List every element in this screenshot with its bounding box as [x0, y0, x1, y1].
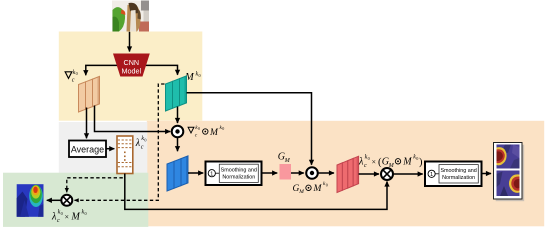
svg-text:): ) — [419, 157, 423, 168]
wire: smoothing box 2 to output — [482, 173, 492, 175]
label: lambda_c^k0 x M^k0 — [51, 210, 87, 225]
svg-text:Smoothing and: Smoothing and — [440, 168, 476, 174]
svg-text:1: 1 — [430, 172, 433, 178]
wire: CNN model branch line (left) — [86, 65, 130, 75]
background: yellow group box (CNN stage) — [59, 32, 203, 121]
svg-text:M: M — [298, 189, 304, 195]
svg-text:Average: Average — [71, 145, 104, 155]
label: G_M odot M^k0 — [293, 181, 328, 195]
svg-text:0: 0 — [76, 71, 78, 76]
feature maps: activations (teal stack) — [166, 76, 187, 111]
wire: odot2 to masked maps (red) — [318, 172, 334, 174]
wire: otimes1 to heatmap result — [47, 199, 62, 201]
svg-text:0: 0 — [198, 126, 200, 131]
operator: odot2 — [306, 167, 318, 179]
operator: otimes1 — [61, 195, 72, 206]
operator: odot1 (element-wise product) — [172, 126, 184, 138]
wire: gradients to odot1 — [95, 106, 171, 132]
box: Average — [69, 141, 106, 158]
svg-text:M: M — [284, 158, 291, 164]
background: orange group box (right stage) — [147, 121, 544, 227]
wire: odot1 down to weighted maps (blue) — [177, 138, 179, 152]
svg-text:M: M — [402, 157, 412, 168]
background: green group box (lambda x M stage) — [3, 173, 148, 227]
feature maps: masked activations (red stack) — [337, 156, 359, 192]
svg-text:0: 0 — [222, 126, 224, 131]
label: gradient nabla_c^k0 — [64, 70, 77, 84]
svg-text:0: 0 — [61, 211, 63, 216]
svg-text:M: M — [209, 128, 219, 138]
wire: blue maps to smoothing box 1 — [188, 172, 203, 174]
svg-text:M: M — [71, 212, 81, 223]
vector: lambda_c^k0 (dashed cells) — [117, 136, 133, 174]
operator: otimes2 — [381, 168, 393, 180]
wire: otimes2 to smoothing box 2 — [393, 173, 423, 175]
input photo (parrot and dog) — [112, 1, 149, 32]
wire: dashed M^k0 down-left to otimes1 — [75, 84, 165, 200]
wire: CNN model branch line (right) — [132, 65, 178, 74]
svg-text:×: × — [372, 158, 377, 167]
block: G_M pink square — [280, 164, 292, 180]
svg-text:c: c — [141, 145, 144, 151]
wire: gradients down to Average — [86, 108, 88, 139]
svg-text:0: 0 — [144, 137, 146, 142]
feature maps: gradients (tan stack) — [79, 76, 100, 112]
svg-text:×: × — [65, 213, 70, 222]
svg-text:0: 0 — [368, 156, 370, 161]
svg-text:CNN: CNN — [124, 58, 140, 67]
svg-text:0: 0 — [85, 211, 87, 216]
label: lambda_c^k0 x (G_M odot M^k0) — [358, 155, 423, 170]
wire: activations to right (M line) then down to odot2 — [187, 93, 312, 165]
svg-text:0: 0 — [326, 182, 328, 187]
svg-text:M: M — [313, 184, 323, 194]
svg-text:Model: Model — [122, 67, 142, 76]
box: smoothing and normalization 1 — [206, 162, 262, 186]
wire: Average to lambda vector — [106, 148, 114, 150]
feature maps: weighted activations (blue stack) — [167, 156, 188, 191]
wire: red maps to otimes2 — [359, 173, 379, 175]
svg-text:Smoothing and: Smoothing and — [221, 168, 257, 174]
label: G_M — [278, 152, 291, 164]
output: lambda x M heatmap image — [17, 184, 44, 217]
label: lambda_c^k0 — [135, 136, 147, 151]
svg-text:Normalization: Normalization — [222, 175, 255, 181]
label: M^k0 (activation maps) — [184, 72, 201, 84]
svg-text:c: c — [364, 163, 367, 169]
CNN model trapezoid U1 — [113, 54, 150, 77]
svg-text:Normalization: Normalization — [442, 175, 475, 181]
wire: smoothing box 1 to G_M square — [262, 172, 278, 174]
box: smoothing and normalization 2 — [425, 162, 482, 187]
label: nabla_c^k0 odot M^k0 — [187, 125, 224, 139]
svg-text:c: c — [72, 78, 75, 84]
wire: dashed lambda to otimes1 — [67, 174, 125, 192]
wire: photo to CNN model — [129, 32, 131, 52]
svg-text:c: c — [57, 218, 60, 224]
background: gray group box (average stage) — [59, 122, 148, 175]
svg-text:1: 1 — [210, 171, 213, 177]
wire: activations down to odot1 — [177, 107, 179, 124]
svg-text:0: 0 — [199, 73, 201, 78]
wire: lambda solid line to otimes2 (down, right, up) — [125, 174, 387, 210]
output: result images box — [494, 143, 525, 202]
wire: G_M square to odot2 — [291, 172, 304, 174]
